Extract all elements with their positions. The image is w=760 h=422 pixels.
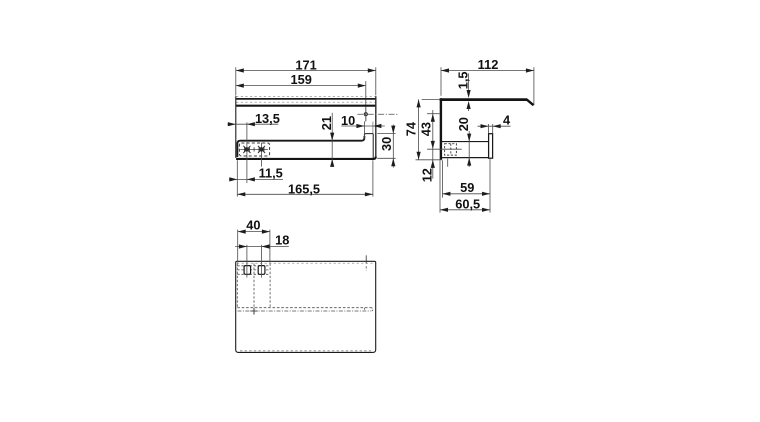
- dimension 74 line: [418, 99, 420, 159]
- svg-text:4: 4: [503, 112, 511, 127]
- dimension 30 lower arrow: [391, 158, 395, 166]
- side bar top edge: [442, 141, 489, 143]
- svg-text:59: 59: [460, 180, 474, 195]
- dimension 12 line: [432, 149, 434, 179]
- upper hole vertical centre line tail: [365, 108, 367, 122]
- front view: hole centre extension line (159): [365, 81, 367, 121]
- dimension 60,5 left arrow: [440, 208, 448, 212]
- tab T2 centre line: [261, 245, 263, 278]
- dimension 171 line: [236, 70, 376, 72]
- dimension 20 upper arrow: [467, 134, 471, 142]
- dimension 40 right arrow: [262, 230, 270, 234]
- upper hole horizontal centre line (dash-dot): [357, 113, 397, 115]
- dimension 1,5 upper line: [468, 73, 470, 91]
- dimension 13,5 right outside arrow: [247, 122, 255, 126]
- screw hole H2 centre line vertical: [261, 143, 263, 167]
- front view inner right edge line: [372, 134, 374, 159]
- side shelf (thick): [440, 98, 528, 101]
- dimension 40 left extension line: [237, 230, 239, 263]
- svg-text:74: 74: [404, 121, 419, 136]
- left lower extension line: [236, 160, 238, 196]
- dimension 4 line: [478, 125, 511, 127]
- dimension 59 line: [442, 193, 490, 195]
- tab T1 centre line: [246, 245, 248, 278]
- dimension 30 upper arrow: [391, 126, 395, 134]
- dimension 59 left arrow: [442, 192, 450, 196]
- dimension 40 line: [238, 231, 270, 233]
- hidden centre axis (dashed vertical): [253, 263, 255, 314]
- hidden right slot edge (dashed vertical): [269, 263, 271, 307]
- hidden left inner edge (dashed vertical): [236, 263, 238, 307]
- side hole centre tick below wall: [447, 159, 449, 167]
- dimension 21 line: [331, 113, 333, 167]
- dimension 13,5 line: [228, 123, 279, 125]
- dimension 60,5 right arrow: [482, 208, 490, 212]
- svg-text:21: 21: [319, 116, 334, 130]
- dimension 159 left arrow: [236, 84, 244, 88]
- dimension 43 line: [432, 110, 434, 149]
- dimension 21 lower arrow: [330, 159, 334, 167]
- mounting tab T1: [244, 266, 251, 275]
- hole centre tick on top edge: [365, 255, 367, 263]
- dimension 43 top extension line: [427, 113, 440, 115]
- dimension 30 top extension line: [377, 133, 395, 135]
- side end cap: [489, 134, 493, 159]
- front shelf top hidden edge (dashed): [236, 95, 375, 97]
- dimension 59 left extension line: [441, 160, 443, 197]
- front view right edge: [375, 96, 377, 157]
- screw hole H2 thread cross: [258, 146, 265, 153]
- dimension 112 left arrow: [441, 68, 449, 72]
- svg-text:18: 18: [275, 233, 289, 248]
- dimension 159 right arrow: [358, 84, 366, 88]
- dimension 20 lower arrow: [467, 158, 471, 166]
- dimension 10 right extension line: [372, 122, 374, 133]
- dimension 18 left outside arrow: [239, 244, 247, 248]
- dimension 59 right arrow: [482, 192, 490, 196]
- dimension 4 right outside arrow: [493, 124, 501, 128]
- side shelf bent lip: [527, 99, 534, 105]
- dimension 60,5 left extension line: [439, 160, 441, 212]
- dimension 11,5 line: [229, 178, 283, 180]
- front view left edge: [235, 96, 237, 158]
- dimension 43 top arrow: [431, 114, 435, 122]
- dimension 13,5 left outside arrow: [228, 122, 236, 126]
- hidden slot row bottom (dashed): [237, 273, 270, 275]
- side hole centre line: [427, 148, 462, 150]
- screw hole H1 thread cross: [243, 146, 250, 153]
- svg-text:30: 30: [379, 137, 394, 151]
- screw hole H1 centre line vertical: [246, 122, 248, 183]
- dimension 171 left arrow: [236, 68, 244, 72]
- hidden bar near edge (dashed): [237, 307, 370, 309]
- right lower extension line: [372, 160, 374, 196]
- svg-text:60,5: 60,5: [455, 196, 480, 211]
- hidden bar far edge (dash-dot): [238, 310, 371, 312]
- dimension 18 right outside arrow: [262, 244, 270, 248]
- front view: right extension line: [375, 67, 377, 95]
- dimension 21 upper arrow: [330, 133, 334, 141]
- front shelf top edge: [236, 98, 376, 100]
- dimension 74 bottom extension line: [416, 159, 443, 161]
- svg-text:40: 40: [246, 218, 260, 233]
- svg-text:10: 10: [341, 113, 355, 128]
- dimension 20 line: [468, 131, 470, 167]
- dimension 11,5 left outside arrow: [229, 177, 237, 181]
- dimension 4 right extension line: [492, 124, 494, 133]
- top view outline: [236, 261, 376, 352]
- dimension 4 left outside arrow: [481, 124, 489, 128]
- svg-text:112: 112: [478, 57, 499, 72]
- upper hole circle: [364, 113, 367, 116]
- screw hole H1 circle: [245, 148, 248, 151]
- front rail outline (thick, rounded): [237, 136, 364, 157]
- dimension 10 extension line: [363, 121, 365, 138]
- dimension 10 right outside arrow: [373, 124, 381, 128]
- centre axis cross ticks: [250, 310, 257, 312]
- side view: wall top extension line: [440, 67, 442, 96]
- dimension 12 lower arrow: [431, 160, 435, 168]
- side hidden boss (dashed rect): [445, 144, 457, 155]
- svg-text:11,5: 11,5: [259, 166, 283, 181]
- svg-text:13,5: 13,5: [255, 111, 280, 126]
- front view: left extension line: [235, 67, 237, 95]
- svg-text:20: 20: [456, 117, 471, 131]
- side view: lip extension line: [533, 67, 535, 105]
- screw holes horizontal centre line: [240, 148, 268, 150]
- hidden slot row top (dashed): [237, 265, 270, 267]
- hidden slot row middle (dashed): [237, 269, 270, 271]
- dimension 171 right arrow: [368, 68, 376, 72]
- dimension 59 right extension line: [489, 159, 491, 213]
- dimension 43 bottom arrow: [431, 141, 435, 149]
- hidden end-cap rounded end (dashed): [371, 308, 373, 311]
- dimension 4 left extension line: [488, 124, 490, 133]
- side hidden boss middle dashed line: [450, 144, 452, 155]
- dimension 112 line: [441, 70, 534, 72]
- hidden end-cap inner edge (dashed vertical): [364, 308, 366, 311]
- dimension 40 left arrow: [238, 230, 246, 234]
- svg-text:171: 171: [295, 57, 316, 72]
- front shelf fold edge (thick): [236, 105, 376, 107]
- dimension 74 top extension line: [422, 98, 440, 100]
- dimension 11,5 right outside arrow: [247, 177, 255, 181]
- dimension 10 left outside arrow: [356, 124, 364, 128]
- dimension 112 right arrow: [526, 68, 534, 72]
- front shelf hidden fold line (dashed): [236, 101, 375, 103]
- dimension 165,5 right arrow: [365, 192, 373, 196]
- dimension 1,5 lower line: [468, 109, 470, 111]
- dimension 165,5 line: [237, 193, 373, 195]
- front view bottom edge (thick): [236, 157, 376, 159]
- dimension 1,5 lower arrow: [467, 101, 471, 109]
- svg-text:12: 12: [419, 168, 434, 182]
- mounting tab T2: [258, 266, 265, 275]
- dimension 165,5 left arrow: [237, 192, 245, 196]
- mounting plate hidden outline (dashed rect): [239, 143, 269, 156]
- screw hole H2 circle: [260, 148, 263, 151]
- dimension 18 line: [235, 246, 289, 248]
- dimension 74 bottom arrow: [417, 152, 421, 160]
- dimension 1,5 upper arrow: [467, 90, 471, 98]
- dimension 40 right extension line: [269, 230, 271, 263]
- side wall (thick vertical): [440, 98, 442, 159]
- dimension 74 top arrow: [417, 99, 421, 107]
- svg-text:1,5: 1,5: [455, 72, 470, 90]
- svg-text:165,5: 165,5: [288, 181, 320, 196]
- svg-text:43: 43: [419, 122, 434, 136]
- side bar bottom edge: [442, 157, 489, 159]
- svg-text:159: 159: [291, 72, 312, 87]
- top view hidden edge above bottom (dashed): [240, 350, 372, 352]
- dimension 30 line: [392, 125, 394, 168]
- top view hidden edge below top (dashed): [237, 262, 375, 264]
- dimension 159 line: [236, 85, 366, 87]
- dimension 60,5 line: [440, 209, 490, 211]
- dimension 30 bottom extension line: [377, 157, 395, 159]
- front step to end-cap edge: [364, 134, 373, 137]
- dimension 10 line: [341, 125, 385, 127]
